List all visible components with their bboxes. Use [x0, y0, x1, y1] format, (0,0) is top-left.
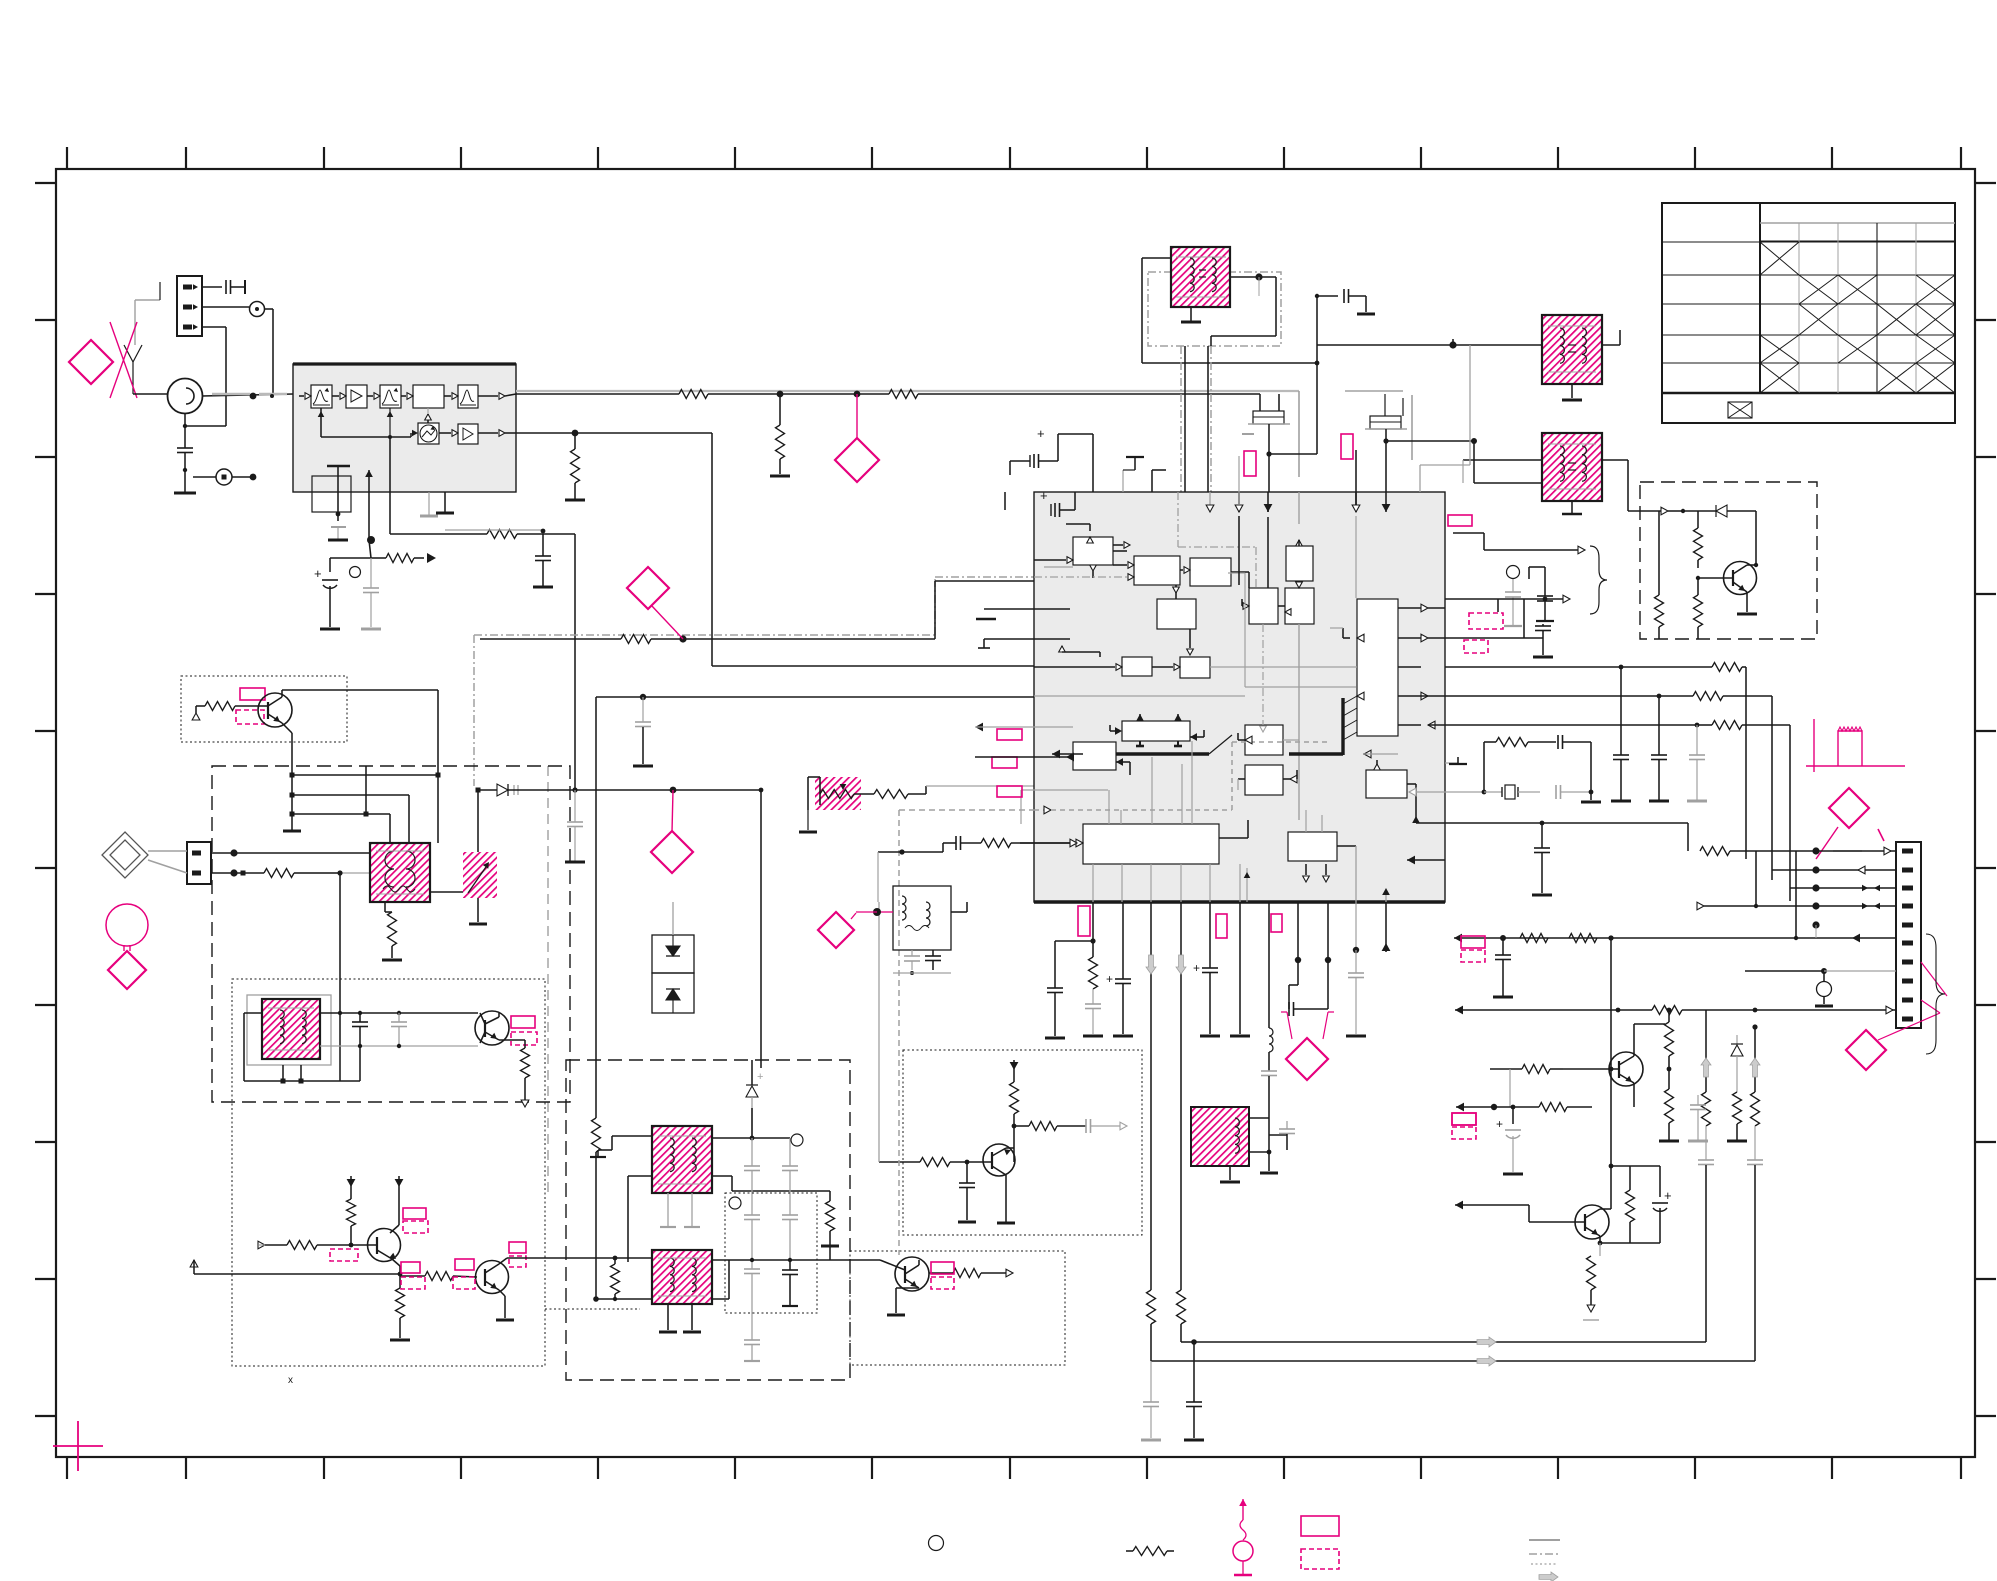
wire from disc	[951, 911, 967, 913]
dotted box C	[850, 1251, 1065, 1365]
ground	[1357, 313, 1375, 316]
block: video amp	[1180, 657, 1210, 678]
block: audio amp	[1245, 765, 1283, 795]
bandpass filter stage 2	[380, 385, 401, 408]
capacitor C111 gray	[1512, 579, 1514, 592]
arrows into IC top	[1209, 492, 1211, 505]
jack J102	[193, 476, 216, 478]
out line y599	[1445, 598, 1545, 600]
wires to T103	[1473, 441, 1475, 483]
supply arrows	[347, 1179, 356, 1187]
wire y697	[1445, 695, 1659, 697]
arrow y1205	[1455, 1201, 1463, 1210]
wire antenna to tuner	[133, 393, 168, 395]
input resistor R6	[258, 1241, 265, 1249]
gnd stub	[1122, 470, 1124, 492]
brace right	[1926, 934, 1945, 1054]
gray stub	[159, 282, 161, 300]
pin lines	[1445, 822, 1542, 824]
block: sync proc	[1083, 824, 1219, 864]
FM transformer T2	[262, 999, 320, 1059]
wire SIF to IC	[711, 433, 713, 666]
T1 right wires	[430, 891, 463, 893]
svg-text:+: +	[1664, 1188, 1672, 1203]
IF block gnd pins	[428, 492, 430, 515]
delay block	[413, 385, 444, 408]
pink ref	[1341, 434, 1353, 459]
gray dashed shield line	[547, 766, 549, 1194]
resistor R112	[1697, 578, 1699, 595]
resistor R106	[820, 790, 854, 799]
pink diamond below	[108, 951, 146, 989]
capacitor C109	[370, 558, 372, 588]
capacitor C112	[1497, 599, 1499, 612]
coil drop x1269	[1268, 902, 1270, 1028]
wire T101 right	[1230, 276, 1259, 278]
dotted box B	[903, 1050, 1142, 1235]
AFT take-off	[389, 437, 391, 534]
ceramic filter CF101	[1253, 411, 1284, 424]
T4 wires	[596, 1298, 652, 1300]
capacitor C113	[1542, 624, 1544, 626]
antenna symbol	[124, 345, 133, 362]
ground	[328, 539, 348, 542]
vertical x1796	[1795, 851, 1797, 938]
transformer T103	[1542, 433, 1602, 501]
pin line2	[1812, 866, 1819, 873]
CF1 out stub	[1268, 424, 1270, 454]
svg-text:x: x	[288, 1375, 293, 1386]
arrow y1107	[1456, 1103, 1464, 1112]
transistor Q6	[983, 1144, 1015, 1176]
block: AGC det	[1073, 537, 1113, 565]
Vcc arrow into block	[368, 492, 370, 540]
junction	[250, 393, 257, 400]
base cap C7	[966, 1162, 968, 1183]
up arrow x1386	[1385, 902, 1387, 952]
AGC feedback wire	[320, 408, 322, 414]
wire to T102	[1317, 344, 1542, 346]
grounds	[1229, 1166, 1231, 1180]
cap C123	[1502, 938, 1504, 955]
wire T101 left	[1142, 257, 1171, 259]
resistor R107	[854, 793, 874, 795]
discriminator box	[893, 886, 951, 950]
diamond TP3	[651, 831, 693, 873]
arrow line1	[1484, 549, 1578, 551]
wire pin2 to jack	[202, 306, 249, 308]
capacitor C122	[1555, 785, 1557, 799]
tuner TU101	[168, 379, 203, 414]
branch cap	[1055, 940, 1093, 942]
resistor R8	[611, 1264, 620, 1294]
pink refs	[240, 688, 265, 700]
arrow y1009	[1455, 1006, 1463, 1015]
crystal X201	[312, 476, 351, 512]
diode pack	[652, 935, 694, 973]
block: chroma tall	[1357, 599, 1398, 736]
bus wires to left	[1194, 1341, 1706, 1343]
block: sub block	[1073, 742, 1116, 770]
svg-text:+: +	[1106, 972, 1113, 986]
pink dashed ref	[1464, 640, 1488, 653]
capacitor C101	[225, 280, 227, 294]
T2 wires	[320, 1012, 478, 1014]
pink lead	[1816, 827, 1838, 859]
audio out line	[830, 1259, 880, 1261]
pink refs Q3/Q4	[403, 1208, 426, 1219]
resistor R126	[1520, 934, 1548, 943]
gnd stub	[1445, 762, 1458, 764]
gray dash note	[1833, 850, 1862, 852]
legend circle	[929, 1536, 944, 1551]
emitter resistor R138	[1599, 1243, 1601, 1256]
link to output resistor	[732, 1190, 830, 1192]
pink ref	[992, 757, 1017, 768]
AFT wire black	[480, 638, 621, 640]
res to arrow	[371, 557, 386, 559]
diamond TP右	[1829, 788, 1869, 828]
circles	[791, 1134, 803, 1146]
pin line3	[1812, 884, 1819, 891]
resistor R3	[384, 902, 386, 912]
drop x1093 + res	[1092, 902, 1094, 957]
T3 bottom stubs	[667, 1193, 669, 1226]
bandpass filter stage 1	[311, 385, 332, 408]
resistor R136	[1733, 1092, 1742, 1124]
pin line4	[1812, 902, 1819, 909]
resistor R104	[487, 530, 517, 539]
coupling resistor	[400, 1275, 425, 1277]
transformer T101	[1171, 247, 1230, 307]
resistor R110	[1697, 511, 1699, 528]
IC bottom pin drops	[1093, 864, 1240, 902]
svg-text:+: +	[1193, 961, 1200, 975]
connector CN101 (antenna input)	[177, 276, 202, 336]
transistor Q2	[475, 1011, 509, 1045]
resistor R128	[1652, 1006, 1682, 1015]
zener D2	[751, 1060, 753, 1085]
circle mark	[350, 567, 361, 578]
VCO tie	[427, 414, 429, 423]
junction	[679, 635, 686, 642]
resistor R102	[889, 390, 918, 399]
resistor R103	[574, 433, 576, 449]
capacitor C134	[1697, 1095, 1699, 1105]
junction below IF block	[367, 536, 375, 544]
base trunk	[1610, 938, 1612, 1069]
dotted box caps	[725, 1193, 817, 1313]
wire tuner out	[202, 394, 293, 396]
wire long vertical x596	[595, 697, 597, 1118]
head drive wires	[292, 774, 438, 776]
resistor R122	[1693, 692, 1723, 701]
resistor R131	[1702, 1092, 1711, 1126]
tape circle pink	[106, 904, 148, 946]
audio transformer T4	[652, 1250, 712, 1304]
diode D131	[1736, 1035, 1738, 1044]
block: video det	[1190, 558, 1231, 586]
capacitor C106	[542, 534, 544, 556]
input arrow	[1661, 507, 1668, 515]
amp stage	[346, 385, 367, 408]
core gray	[247, 995, 331, 1065]
jack J101	[250, 302, 265, 317]
junction	[640, 694, 646, 700]
drop x1123 electrolytic	[1122, 902, 1124, 979]
base resistor R12	[879, 1161, 920, 1163]
resistor R137	[1629, 1166, 1631, 1190]
drop x1210 electrolytic	[1209, 902, 1211, 968]
cap into sync	[955, 836, 957, 850]
V+ arrow	[1010, 1062, 1019, 1070]
pink ref	[997, 786, 1022, 797]
dotted box audio	[232, 979, 545, 1366]
jack circle2	[1817, 982, 1832, 997]
varicap hatched	[463, 852, 497, 898]
resistor R105 on AFT bus	[621, 635, 651, 644]
signal arrows at IC left	[975, 723, 983, 732]
stub pin y639	[984, 638, 1070, 640]
transistor Q202	[1575, 1205, 1609, 1239]
IF signal line gray	[516, 390, 1299, 392]
attenuator pad hatched	[815, 777, 861, 810]
capacitor C131	[1698, 1159, 1714, 1161]
block: VCO	[1122, 721, 1190, 741]
crystal X201 top bar	[327, 465, 350, 467]
pink refs Q2	[511, 1016, 535, 1028]
caps pair	[359, 1013, 361, 1022]
transistor Q201	[1609, 1052, 1643, 1086]
electrolytic C302	[1004, 492, 1006, 510]
pink ref	[997, 729, 1022, 740]
jack circle	[1507, 566, 1520, 579]
dashed audio box	[566, 1060, 850, 1380]
capacitor C132	[1747, 1159, 1763, 1161]
IC301 main processor	[1034, 492, 1445, 902]
antenna diamond connector	[69, 340, 113, 384]
capacitor C114	[1541, 823, 1543, 848]
electrolytic C108	[330, 557, 371, 559]
resistor R111	[1658, 510, 1660, 512]
svg-text:+: +	[1037, 426, 1045, 441]
head transformer T1	[370, 843, 430, 902]
block: eq amp	[1122, 657, 1152, 676]
dashed box video	[212, 766, 570, 1102]
SIF line from IF block	[516, 432, 575, 434]
cap C4	[513, 785, 515, 795]
shield box dash-dot	[1148, 272, 1281, 346]
resistor R134	[1668, 1010, 1670, 1022]
osc RC network	[1409, 791, 1484, 793]
wire pin3 down	[202, 326, 226, 328]
dash-dot AFT bus	[474, 634, 935, 636]
legend rect dashed	[1301, 1549, 1339, 1569]
pink ref	[1244, 451, 1256, 476]
wire to C110	[1258, 277, 1260, 296]
resistor R135	[1665, 1089, 1674, 1123]
connector X mark pink	[110, 322, 137, 398]
dash-dot drops	[1180, 346, 1182, 722]
block: VIF amp	[1134, 556, 1180, 585]
block: AFT det	[1157, 599, 1196, 629]
collector line to T4	[507, 1257, 652, 1259]
pink trap outline	[1281, 1012, 1334, 1039]
brace	[1590, 546, 1607, 614]
bottom rail	[194, 1273, 400, 1275]
junction	[854, 391, 861, 398]
resistor R123	[1712, 721, 1742, 730]
diamond TP2	[627, 567, 669, 609]
svg-text:+: +	[1496, 1117, 1503, 1131]
resistor R125	[1700, 847, 1730, 856]
ground	[1571, 384, 1573, 398]
ground	[565, 499, 585, 502]
diode D3	[497, 784, 508, 796]
transistor Q4	[476, 1261, 509, 1294]
wire y1010	[1455, 1009, 1652, 1011]
long line from IC	[878, 902, 880, 1162]
caps column x750	[751, 1138, 753, 1166]
pin line5	[1812, 921, 1819, 928]
emitter resistor	[499, 1039, 525, 1041]
legend source pink	[1242, 1499, 1244, 1520]
svg-text:+: +	[1040, 488, 1048, 503]
wire y667	[1445, 666, 1621, 668]
ceramic filter CF102	[1370, 416, 1401, 429]
resistor R127	[1569, 934, 1597, 943]
block: out buf	[1366, 770, 1407, 798]
transistor Q101	[1724, 562, 1757, 595]
mixer block	[418, 423, 439, 444]
gray feed B3 to bus	[1228, 572, 1245, 574]
cap drop x1356	[1355, 902, 1357, 950]
mixer to amp	[439, 432, 451, 434]
CF2 out stub	[1385, 429, 1387, 441]
capacitor C141	[1269, 1134, 1287, 1136]
wire to diamond	[856, 394, 858, 438]
resistor R124	[1496, 738, 1528, 747]
amp out	[478, 432, 498, 434]
wire jack to IF line	[264, 308, 273, 310]
T4 bottom stubs	[667, 1304, 669, 1330]
wire trunk x1317	[1316, 296, 1318, 363]
junction	[270, 394, 274, 398]
stage wiring row1	[305, 393, 311, 400]
wire y725	[1445, 724, 1697, 726]
resistor R2	[264, 869, 294, 878]
ground	[1746, 602, 1748, 612]
ground	[1571, 501, 1573, 513]
wire y638	[1445, 637, 1524, 639]
crystal X301	[1484, 791, 1502, 793]
wire Q1 collector down	[437, 690, 439, 843]
gray dashed video return	[898, 810, 900, 1255]
wire pin1 to C101	[202, 286, 222, 288]
pink stub to diamond	[651, 605, 683, 639]
transistor Q1	[258, 693, 292, 727]
tuner ground stem	[184, 414, 186, 426]
capacitor C105	[574, 790, 576, 822]
electrolytic C301	[1009, 461, 1011, 475]
pink diamond disc	[818, 912, 854, 948]
electrolytic C135	[1630, 1165, 1660, 1167]
legend pink rects	[1078, 906, 1090, 936]
diode D102	[1683, 510, 1716, 512]
T3 wires	[612, 1135, 652, 1137]
resistor R10	[1010, 1082, 1019, 1114]
drop x1240	[1239, 902, 1241, 1034]
long trunk x575	[574, 534, 576, 790]
resistor R11	[1014, 1125, 1029, 1127]
pink dashed ref	[330, 1249, 358, 1261]
pink leads low	[1921, 1000, 1940, 1013]
trap caps pair	[1297, 902, 1299, 960]
bandpass filter stage 3	[458, 385, 478, 408]
open arrow down	[1587, 1305, 1595, 1312]
wire T103 to box	[1602, 459, 1628, 461]
legend rect solid	[1301, 1516, 1339, 1536]
capacitor C110	[1343, 289, 1345, 303]
shield box dashed	[1640, 482, 1817, 639]
resistor R132	[1751, 1092, 1760, 1126]
block: FM det	[1245, 725, 1283, 755]
up arrows gray	[1701, 1058, 1711, 1077]
disc caps	[911, 950, 913, 956]
pink ref	[1448, 515, 1472, 526]
registration cross	[53, 1445, 103, 1447]
black drops to IC	[1184, 346, 1186, 492]
dotted box Q1	[181, 676, 347, 742]
svg-text:+: +	[757, 1071, 763, 1083]
pink diamond low	[1846, 1030, 1886, 1070]
capacitor C121	[1557, 735, 1559, 749]
wire y971	[1745, 970, 1824, 972]
bottom rail	[244, 1080, 360, 1082]
pink ref dashed	[1469, 613, 1503, 629]
resistor R121	[1712, 663, 1742, 672]
ground	[184, 470, 186, 492]
audio amp block	[458, 424, 478, 444]
block: H/V osc	[1288, 832, 1337, 861]
transistor Q5	[895, 1257, 929, 1291]
diamond TP	[835, 438, 879, 482]
block: SIF mix2	[1285, 588, 1314, 624]
resistor R1	[205, 702, 235, 711]
pink lead to diamond	[672, 790, 673, 832]
diamond TP low	[1286, 1038, 1328, 1080]
ground	[1190, 307, 1192, 321]
resistor R13	[981, 839, 1011, 848]
trunk verticals	[1705, 1010, 1707, 1092]
resistor R302	[1177, 1290, 1186, 1324]
block: SIF mix1	[1249, 588, 1278, 624]
legend resistor	[1126, 1550, 1133, 1552]
pink refs Q5	[931, 1262, 954, 1274]
emitter rail	[291, 733, 293, 830]
stub bracket	[819, 777, 821, 805]
resistor R9b	[826, 1201, 835, 1231]
IC internal wiring	[1020, 492, 1445, 902]
pink hatch box low	[1191, 1107, 1249, 1166]
emitter resistor	[399, 1274, 401, 1288]
waveform pink	[1806, 719, 1905, 772]
resistor R5	[347, 1199, 356, 1226]
input arrow	[192, 713, 200, 720]
capacitor C107	[642, 697, 644, 722]
junction column	[339, 873, 341, 1081]
resistor R133	[1550, 1068, 1563, 1070]
